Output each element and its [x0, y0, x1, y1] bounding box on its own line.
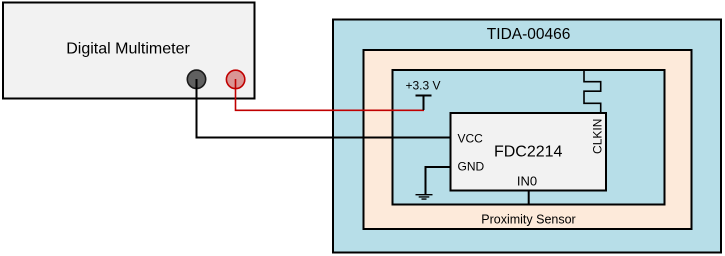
- terminal V (red jack): [226, 70, 244, 88]
- ground: [416, 195, 433, 199]
- svg-text:VCC: VCC: [458, 132, 484, 146]
- IC U1 FDC2214: [451, 113, 607, 191]
- svg-text:Proximity Sensor: Proximity Sensor: [481, 212, 575, 226]
- svg-text:Digital Multimeter: Digital Multimeter: [66, 40, 190, 57]
- inner sensor circuit region: [393, 70, 665, 205]
- terminal COM (black jack): [187, 70, 205, 88]
- svg-text:GND: GND: [458, 160, 485, 174]
- svg-text:TIDA-00466: TIDA-00466: [487, 26, 571, 43]
- wire: IN0 pin to proximity sensor: [528, 190, 530, 205]
- wire: DMM red terminal to +3.3 V node: [236, 79, 425, 110]
- +3.3 V supply symbol: [416, 96, 432, 111]
- svg-text:FDC2214: FDC2214: [494, 143, 563, 160]
- svg-text:+3.3 V: +3.3 V: [406, 78, 441, 92]
- wire: GND pin to ground: [426, 167, 451, 194]
- svg-text:IN0: IN0: [517, 174, 537, 189]
- wire: DMM black (COM) terminal to VCC pin: [197, 79, 451, 138]
- proximity sensor board region: [364, 50, 692, 229]
- clock trace (square wave) into CLKIN pin: [584, 70, 601, 114]
- digital multimeter DMM enclosure: [3, 3, 255, 99]
- svg-text:CLKIN: CLKIN: [591, 119, 605, 154]
- board TIDA-00466 (outer region): [333, 20, 721, 253]
